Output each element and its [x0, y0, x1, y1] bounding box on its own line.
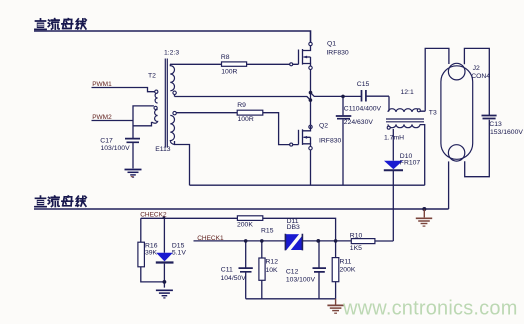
svg-text:R15: R15: [261, 227, 274, 234]
svg-text:104/50V: 104/50V: [221, 275, 247, 282]
svg-text:C12: C12: [286, 268, 299, 275]
svg-text:IRF830: IRF830: [326, 49, 349, 56]
svg-text:200K: 200K: [340, 266, 356, 273]
svg-text:R9: R9: [237, 102, 246, 109]
svg-text:103/100V: 103/100V: [101, 145, 131, 152]
svg-text:153/1600V: 153/1600V: [490, 129, 523, 136]
svg-text:1:2:3: 1:2:3: [164, 50, 179, 57]
svg-text:R11: R11: [340, 259, 352, 266]
svg-text:CHECK1: CHECK1: [197, 235, 224, 242]
svg-text:IRF830: IRF830: [319, 137, 342, 144]
svg-text:R8: R8: [221, 54, 230, 61]
svg-text:100R: 100R: [238, 116, 254, 123]
svg-text:12:1: 12:1: [401, 89, 414, 96]
svg-text:Q2: Q2: [319, 122, 328, 129]
svg-text:Q1: Q1: [327, 41, 336, 48]
svg-text:C15: C15: [357, 81, 370, 88]
svg-text:www.cntronics.com: www.cntronics.com: [342, 298, 518, 320]
svg-text:E113: E113: [155, 146, 171, 153]
svg-text:C11: C11: [221, 267, 233, 274]
svg-text:C13: C13: [489, 121, 502, 128]
svg-text:CHECK2: CHECK2: [140, 211, 167, 218]
svg-text:R16: R16: [145, 242, 158, 249]
svg-text:10K: 10K: [266, 267, 279, 274]
svg-text:DB3: DB3: [287, 224, 300, 231]
svg-text:T3: T3: [429, 110, 437, 117]
svg-text:T2: T2: [148, 73, 156, 80]
svg-text:CON4: CON4: [471, 73, 490, 80]
svg-text:J2: J2: [473, 65, 480, 72]
svg-text:1.7mH: 1.7mH: [384, 134, 404, 141]
svg-text:D15: D15: [172, 242, 185, 249]
svg-text:R12: R12: [266, 259, 279, 266]
svg-text:1K5: 1K5: [350, 245, 362, 252]
svg-text:224/630V: 224/630V: [344, 119, 374, 126]
svg-text:PWM1: PWM1: [92, 81, 112, 88]
svg-text:200K: 200K: [237, 222, 253, 229]
svg-text:39K: 39K: [145, 249, 158, 256]
svg-text:C1104/400V: C1104/400V: [344, 105, 382, 112]
svg-text:103/100V: 103/100V: [286, 277, 316, 284]
svg-text:PWM2: PWM2: [92, 114, 112, 121]
svg-text:R10: R10: [350, 232, 363, 239]
svg-text:5.1V: 5.1V: [172, 249, 186, 256]
svg-text:C17: C17: [100, 138, 113, 145]
svg-text:100R: 100R: [221, 69, 237, 76]
svg-text:FR107: FR107: [400, 160, 421, 167]
